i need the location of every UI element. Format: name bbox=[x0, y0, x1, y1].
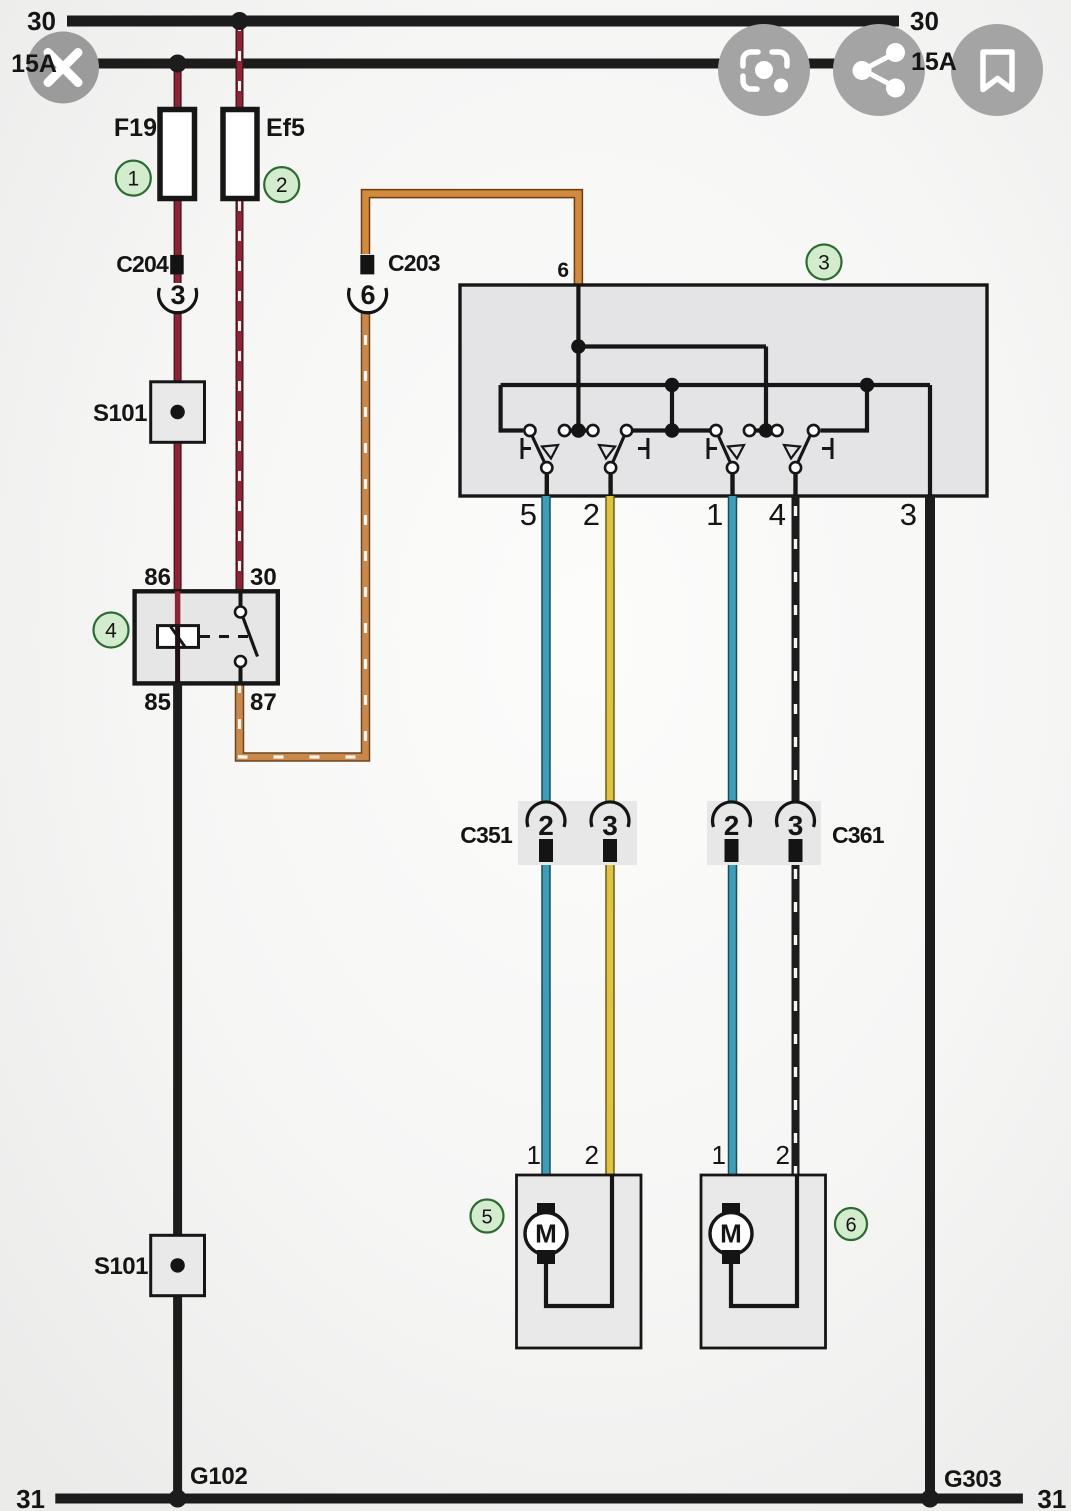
svg-text:M: M bbox=[720, 1219, 742, 1249]
svg-text:2: 2 bbox=[776, 1140, 790, 1170]
bus bar 30 (top) bbox=[27, 6, 939, 36]
orange/white dashed wire from relay 87 to C203 bbox=[240, 311, 366, 757]
svg-text:31: 31 bbox=[1037, 1484, 1066, 1511]
connector C351 bbox=[460, 801, 637, 865]
svg-text:1: 1 bbox=[127, 168, 139, 191]
share button bbox=[833, 24, 925, 116]
svg-text:C203: C203 bbox=[388, 250, 440, 276]
wire: red from bus 15A through F19 to C204 bbox=[174, 64, 182, 284]
motor 5 box bbox=[517, 1140, 642, 1348]
svg-text:C361: C361 bbox=[832, 822, 885, 848]
svg-text:86: 86 bbox=[144, 564, 171, 591]
ground wire from relay 85 to bus 31 bbox=[173, 683, 182, 1499]
module box 3 bbox=[460, 259, 987, 496]
splice S101 upper bbox=[93, 382, 205, 443]
switch 1 bbox=[522, 425, 570, 496]
relay box 4 bbox=[135, 564, 278, 716]
close button (X) bbox=[27, 32, 99, 104]
wire: black from module pin 3 to bus 31 / G303 bbox=[925, 496, 935, 1499]
bus bar 31 (bottom) bbox=[16, 1484, 1066, 1511]
svg-text:M: M bbox=[535, 1219, 557, 1249]
switch 3 bbox=[708, 425, 755, 496]
svg-text:2: 2 bbox=[538, 810, 554, 841]
svg-text:85: 85 bbox=[144, 689, 171, 716]
svg-text:3: 3 bbox=[602, 810, 618, 841]
svg-text:2: 2 bbox=[585, 1140, 599, 1170]
relay coil bbox=[158, 591, 199, 683]
svg-text:4: 4 bbox=[769, 497, 786, 532]
connector C204 pin 3 bbox=[116, 251, 196, 313]
svg-text:G303: G303 bbox=[944, 1466, 1002, 1493]
orange wire from C203 to module pin 6 bbox=[366, 194, 579, 285]
connector C361 bbox=[707, 801, 885, 865]
svg-text:87: 87 bbox=[250, 689, 277, 716]
module internal wiring bbox=[501, 285, 930, 496]
wire: red/white dashed from bus 30 through Ef5 to relay 30 bbox=[236, 21, 244, 591]
C351 pin 2 bbox=[527, 802, 565, 862]
circled 1 bbox=[116, 161, 151, 196]
junction dot on bus 15A bbox=[169, 55, 187, 73]
circled 4 bbox=[94, 613, 129, 648]
module pin labels bbox=[520, 497, 917, 532]
switch 2 bbox=[587, 425, 648, 496]
label 15A right bbox=[911, 48, 957, 76]
relay switch contacts bbox=[235, 591, 258, 683]
lens button bbox=[718, 24, 810, 116]
relay dashed link bbox=[200, 635, 252, 638]
svg-text:4: 4 bbox=[105, 620, 117, 643]
fuse F19 bbox=[114, 110, 195, 199]
switch 4 bbox=[771, 425, 832, 496]
svg-text:30: 30 bbox=[910, 6, 939, 36]
svg-text:Ef5: Ef5 bbox=[266, 114, 305, 142]
svg-text:C204: C204 bbox=[116, 251, 169, 277]
circled 2 bbox=[264, 167, 299, 202]
svg-text:3: 3 bbox=[788, 810, 804, 841]
svg-text:2: 2 bbox=[583, 497, 600, 532]
svg-text:S101: S101 bbox=[93, 400, 147, 427]
junction dots inside module bbox=[571, 339, 874, 437]
C361 pin 2 bbox=[713, 802, 751, 862]
wire: red from C204 to relay 86 bbox=[174, 311, 182, 591]
C361 pin 3 bbox=[776, 802, 814, 862]
svg-text:30: 30 bbox=[250, 564, 277, 591]
motor 5 M symbol bbox=[525, 1175, 612, 1306]
svg-text:15A: 15A bbox=[911, 48, 957, 76]
svg-text:3: 3 bbox=[900, 497, 917, 532]
wire: teal from module pin 1 to motor 6 pin 1 bbox=[728, 496, 738, 1205]
svg-text:1: 1 bbox=[712, 1140, 726, 1170]
fuse Ef5 bbox=[223, 110, 305, 199]
junction dot on bus 30 bbox=[231, 12, 249, 30]
svg-text:3: 3 bbox=[170, 280, 185, 310]
wire: yellow from module pin 2 to motor 5 pin 2 bbox=[605, 496, 615, 1175]
circled 3 bbox=[807, 245, 842, 280]
svg-text:6: 6 bbox=[557, 259, 569, 282]
circled 5 bbox=[471, 1200, 504, 1233]
C351 pin 3 bbox=[591, 802, 629, 862]
svg-text:2: 2 bbox=[724, 810, 740, 841]
svg-text:6: 6 bbox=[360, 280, 375, 310]
wire: black/white dashed from module pin 4 to motor 6 pin 2 bbox=[792, 496, 800, 1175]
bookmark button bbox=[951, 24, 1043, 116]
motor 6 box bbox=[701, 1140, 826, 1348]
svg-text:C351: C351 bbox=[460, 822, 513, 848]
svg-text:1: 1 bbox=[706, 497, 723, 532]
wire: teal from module pin 5 to motor 5 pin 1 bbox=[541, 496, 551, 1205]
label 15A left bbox=[11, 50, 57, 78]
ground G303 bbox=[921, 1466, 1002, 1508]
bus bar 15A bbox=[67, 59, 899, 69]
splice S101 lower bbox=[94, 1235, 205, 1295]
svg-text:2: 2 bbox=[276, 174, 288, 197]
svg-text:30: 30 bbox=[27, 6, 56, 36]
ground G102 bbox=[169, 1463, 248, 1508]
svg-text:6: 6 bbox=[845, 1215, 856, 1237]
svg-text:1: 1 bbox=[527, 1140, 541, 1170]
motor 6 M symbol bbox=[710, 1175, 797, 1306]
connector C203 pin 6 bbox=[349, 250, 440, 313]
svg-text:15A: 15A bbox=[11, 50, 57, 78]
svg-text:5: 5 bbox=[520, 497, 537, 532]
circled 6 bbox=[835, 1208, 867, 1240]
svg-text:F19: F19 bbox=[114, 114, 157, 142]
svg-text:S101: S101 bbox=[94, 1253, 148, 1280]
svg-text:G102: G102 bbox=[190, 1463, 248, 1490]
svg-text:31: 31 bbox=[16, 1484, 45, 1511]
svg-text:5: 5 bbox=[481, 1207, 492, 1229]
svg-text:3: 3 bbox=[818, 252, 830, 275]
